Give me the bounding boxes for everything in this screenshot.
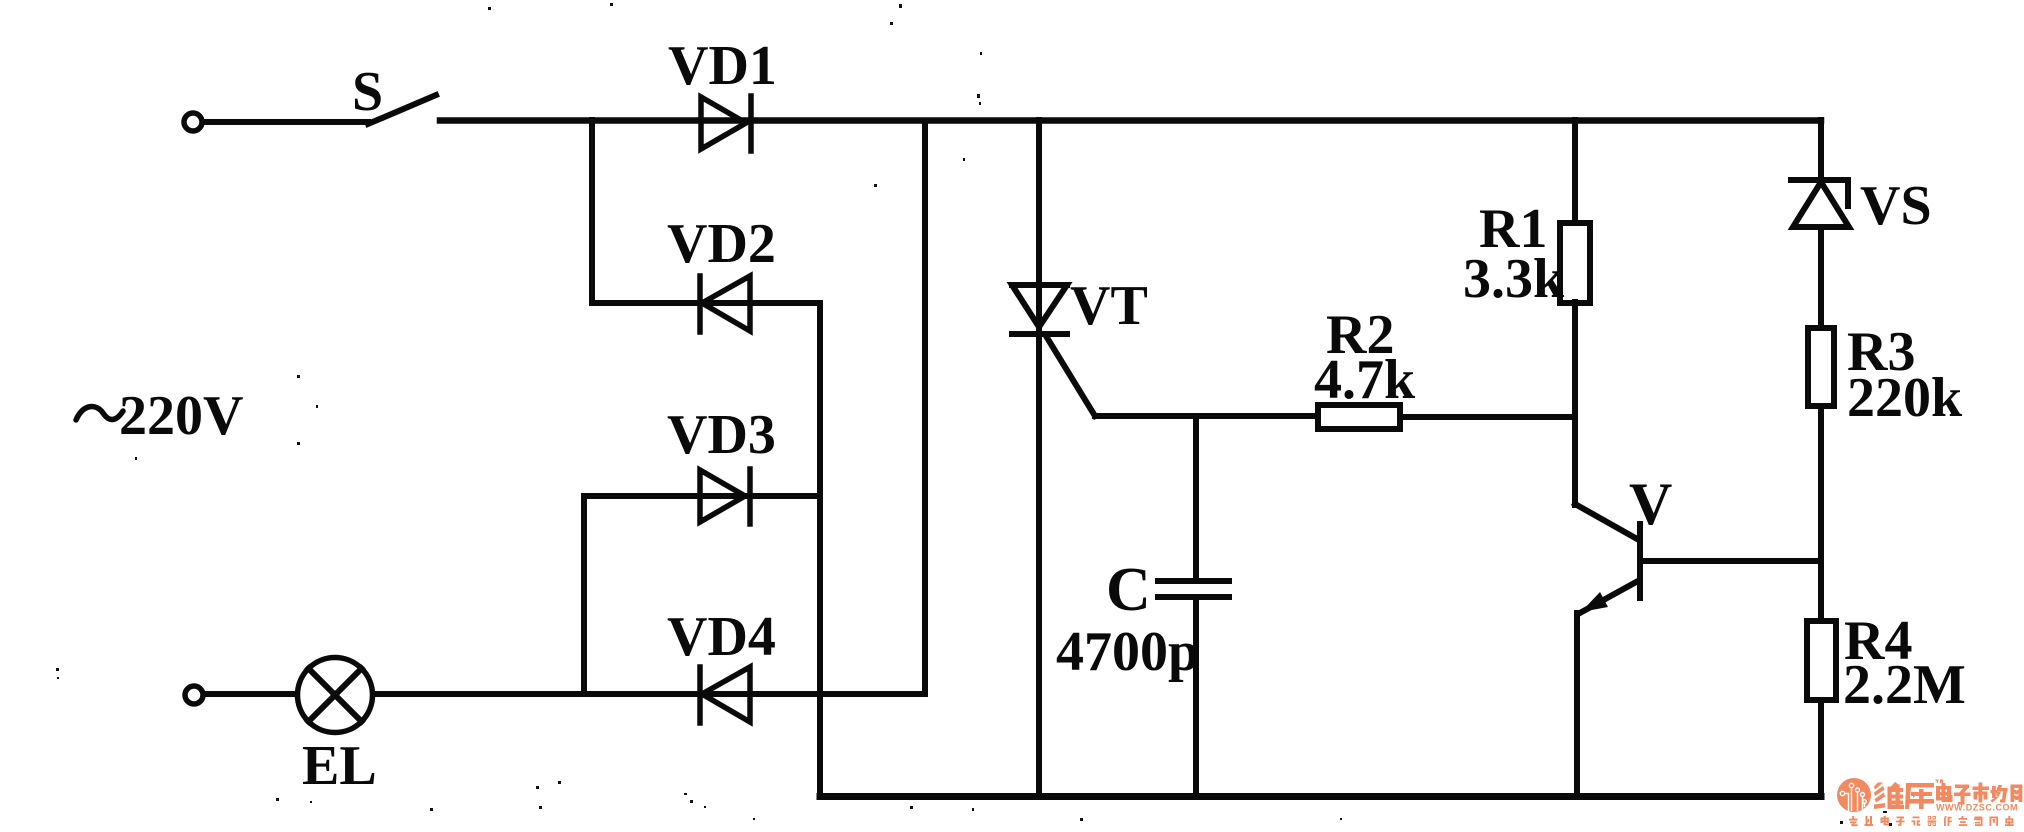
wire bottom main <box>820 793 1821 800</box>
svg-text:4.7k: 4.7k <box>1314 349 1416 411</box>
resistor R1 <box>1560 223 1590 303</box>
label ~220V <box>76 407 123 420</box>
wire VD2 row <box>592 300 820 306</box>
logo text 子 <box>1954 785 1971 805</box>
logo text 市 <box>1973 783 1990 803</box>
wire R1 branch vertical upper <box>1572 120 1578 223</box>
wire vertical VD3 to VD4 <box>581 496 587 694</box>
svg-text:VD4: VD4 <box>667 606 776 668</box>
wire R3 to R4 <box>1818 406 1824 621</box>
svg-text:EL: EL <box>302 735 377 797</box>
logo text 库 <box>1905 783 1934 809</box>
wire C to bottom <box>1193 600 1199 797</box>
wire thyristor branch vertical <box>1036 120 1042 797</box>
svg-text:WWW.DZSC.COM: WWW.DZSC.COM <box>1936 803 2018 813</box>
logo text 场 <box>1991 785 2008 803</box>
logo slogan row <box>1849 816 2014 826</box>
capacitor C <box>1158 581 1229 597</box>
wire vertical VD4 to top <box>922 121 928 694</box>
svg-text:S: S <box>352 61 383 123</box>
terminal top-left <box>184 113 202 131</box>
resistor R3 <box>1808 328 1834 406</box>
logo text 网 <box>2011 785 2023 803</box>
svg-text:2.2M: 2.2M <box>1843 654 1966 716</box>
svg-text:C: C <box>1106 556 1151 624</box>
svg-text:V: V <box>1629 471 1672 537</box>
diode VD4 <box>700 667 750 723</box>
logo TM <box>1936 780 1939 781</box>
wire terminal to lamp <box>205 691 295 697</box>
transistor V <box>1575 504 1821 797</box>
thyristor VT <box>1012 285 1095 416</box>
switch S blade <box>368 95 436 124</box>
svg-text:VT: VT <box>1070 275 1148 337</box>
svg-text:220k: 220k <box>1847 367 1963 429</box>
wire terminal to switch hinge <box>204 119 368 125</box>
svg-text:220V: 220V <box>119 385 243 447</box>
wire R2 to R1 branch <box>1400 414 1575 420</box>
wire vertical to VD2 <box>589 120 595 303</box>
svg-text:3.3k: 3.3k <box>1463 248 1565 310</box>
logo text 电 <box>1936 783 1953 802</box>
wire VD3 row <box>584 493 820 499</box>
watermark 维库电子市场网 logo <box>1837 778 2022 826</box>
svg-text:VS: VS <box>1860 175 1932 237</box>
wire vertical VD2 to bottom <box>817 303 823 797</box>
logo text 维 <box>1874 782 1904 809</box>
terminal bottom-left <box>185 686 203 704</box>
wire gate row <box>1095 413 1318 419</box>
resistor R2 <box>1318 405 1400 429</box>
svg-text:VD3: VD3 <box>667 404 776 466</box>
wire top main <box>440 117 1821 124</box>
lamp EL <box>298 658 373 733</box>
diode VD3 <box>700 469 750 524</box>
diode VD1 <box>701 96 751 151</box>
wire R4 to bottom <box>1818 700 1824 797</box>
wire lamp to VD4 and on <box>375 691 925 697</box>
logo circle <box>1837 778 1871 812</box>
wire C branch vertical upper <box>1193 416 1199 578</box>
diode VD2 <box>700 276 750 332</box>
wire R1 to collector <box>1572 302 1578 505</box>
zener diode VS <box>1791 120 1849 328</box>
resistor R4 <box>1807 621 1836 700</box>
svg-text:VD2: VD2 <box>667 213 776 275</box>
svg-text:VD1: VD1 <box>668 35 777 97</box>
svg-text:4700p: 4700p <box>1056 621 1199 683</box>
